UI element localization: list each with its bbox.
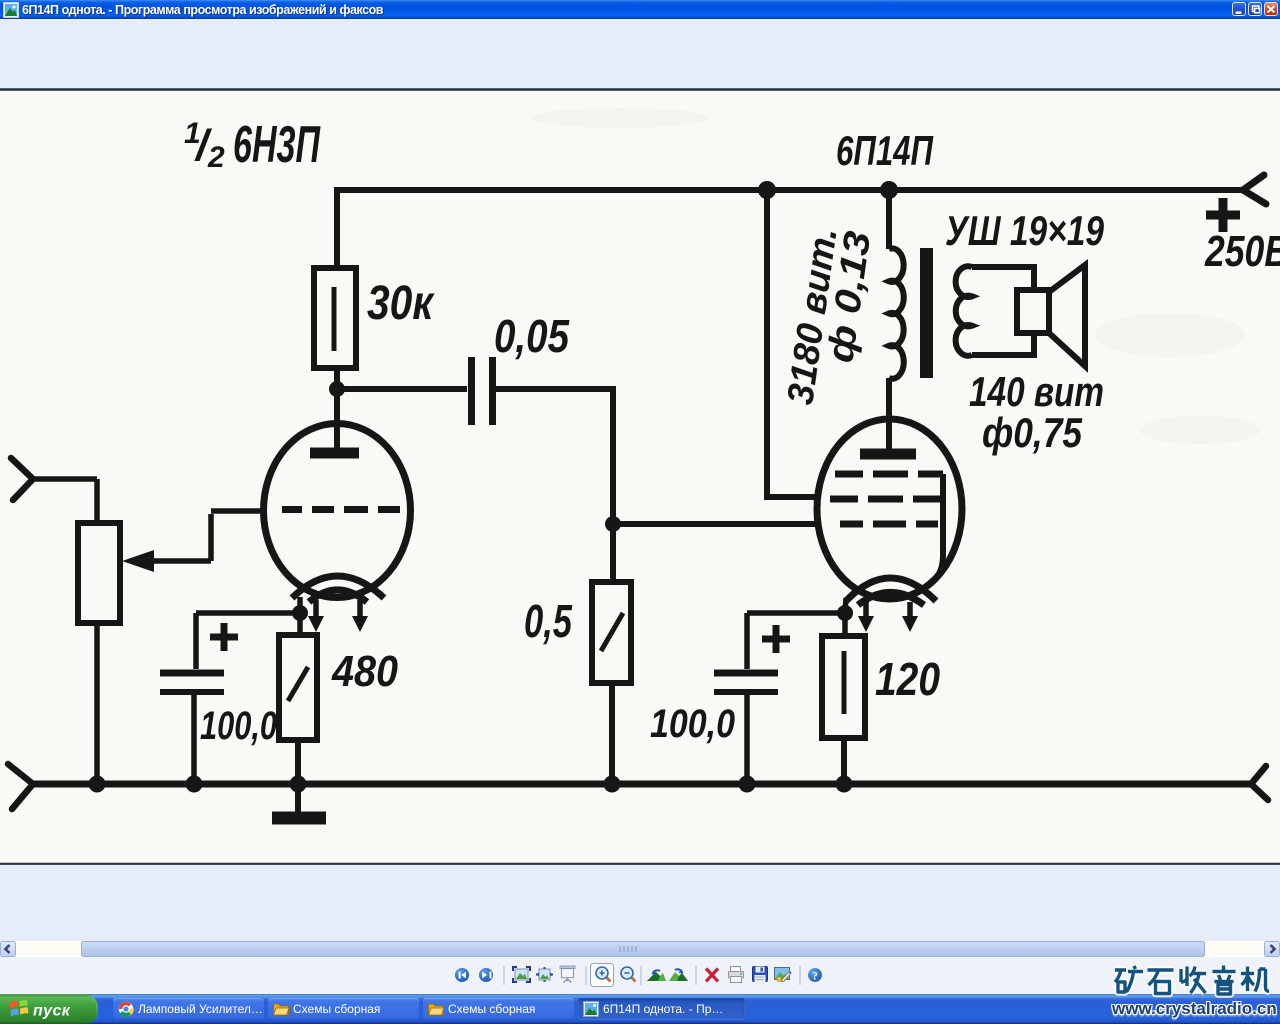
svg-text:140 вит: 140 вит: [969, 368, 1104, 415]
svg-text:6П14П: 6П14П: [836, 127, 934, 174]
svg-text:30к: 30к: [367, 277, 435, 330]
svg-text:2: 2: [207, 141, 225, 174]
svg-text:250В: 250В: [1204, 227, 1280, 276]
svg-text:100,0: 100,0: [650, 702, 735, 746]
svg-text:0,5: 0,5: [524, 595, 573, 647]
svg-text:120: 120: [875, 653, 940, 705]
svg-text:ф0,75: ф0,75: [982, 409, 1083, 456]
svg-text:100,0: 100,0: [200, 704, 277, 748]
svg-text:0,05: 0,05: [494, 310, 570, 362]
svg-text:?: ?: [812, 969, 818, 983]
svg-text:пуск: пуск: [33, 1003, 71, 1020]
svg-text:480: 480: [331, 647, 398, 696]
svg-text:УШ 19×19: УШ 19×19: [945, 207, 1105, 254]
svg-text:6Н3П: 6Н3П: [233, 116, 321, 174]
